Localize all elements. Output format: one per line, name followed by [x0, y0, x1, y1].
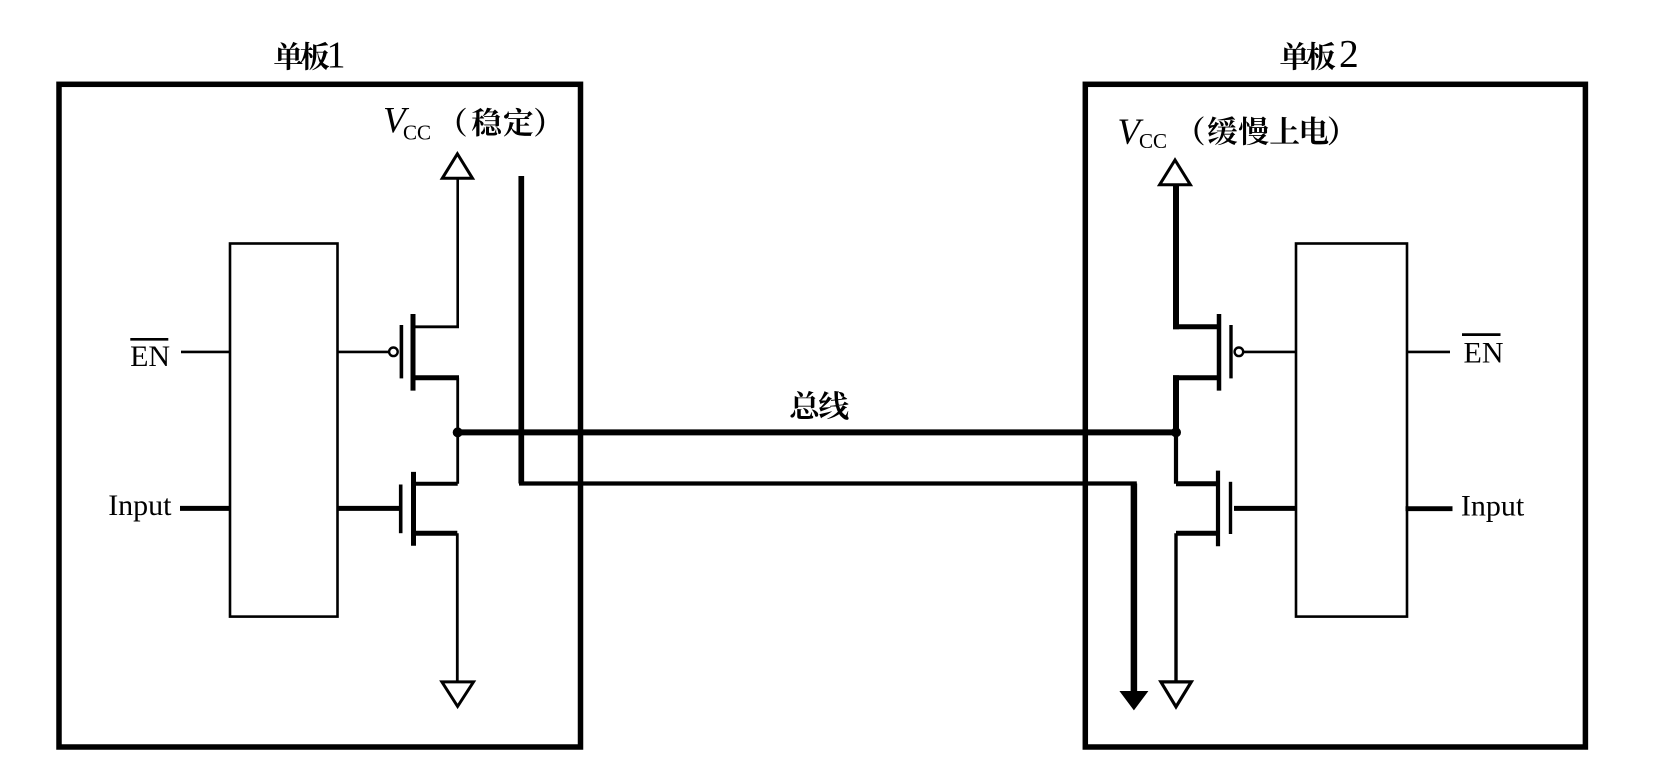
svg-text:Input: Input [1461, 490, 1525, 523]
svg-text:CC: CC [1139, 129, 1167, 153]
svg-text:EN: EN [130, 340, 170, 373]
svg-text:1: 1 [327, 35, 346, 77]
svg-text:EN: EN [1464, 337, 1504, 370]
svg-text:2: 2 [1339, 31, 1359, 75]
svg-text:Input: Input [108, 489, 172, 522]
svg-text:CC: CC [403, 120, 431, 144]
